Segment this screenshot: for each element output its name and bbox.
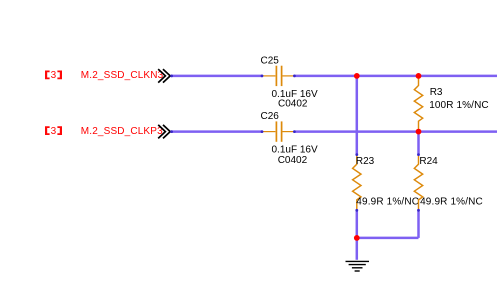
wire R3 bottom junction to R24 — [417, 132, 420, 155]
resistor R23 — [353, 155, 361, 211]
pin dot CLKP chevron — [170, 130, 173, 133]
svg-text:M.2_SSD_CLKN3: M.2_SSD_CLKN3 — [81, 70, 164, 81]
svg-text:C0402: C0402 — [278, 155, 308, 166]
resistor R3 — [414, 76, 422, 132]
svg-text:100R 1%/NC: 100R 1%/NC — [429, 100, 489, 111]
svg-text:0.1uF 16V: 0.1uF 16V — [272, 145, 318, 156]
wire R23 bottom to ground rail — [356, 210, 359, 238]
resistor R24 — [414, 155, 422, 211]
wire CLKN3 vertical drop to R23 — [356, 76, 359, 155]
svg-text:C0402: C0402 — [278, 98, 308, 109]
junction dot CLKP3 at R3 bottom / R24 — [416, 129, 422, 135]
node CLKN page-ref [3] label — [45, 70, 62, 81]
pin dot R23 pin1 — [355, 153, 358, 156]
wire CLKN3 from C25 to right edge — [294, 75, 497, 78]
wire CLKP3 from C26 to right edge — [294, 130, 497, 133]
junction dot CLKN3 at R3 top — [416, 73, 422, 79]
svg-text:49.9R 1%/NC: 49.9R 1%/NC — [420, 197, 483, 208]
junction dot ground rail — [354, 235, 360, 241]
pin dot R24 pin2 — [417, 209, 420, 212]
svg-text:3: 3 — [51, 126, 57, 137]
pin dot C25 pin2 — [293, 75, 296, 78]
svg-text:C25: C25 — [261, 55, 280, 66]
junction dot CLKN3 at R23 drop — [354, 73, 360, 79]
svg-text:R24: R24 — [419, 156, 438, 167]
pin dot CLKN chevron — [170, 75, 173, 78]
capacitor C26 — [262, 121, 295, 141]
svg-text:M.2_SSD_CLKP3: M.2_SSD_CLKP3 — [81, 126, 163, 137]
off-page connector chevron CLKP — [159, 125, 170, 137]
svg-text:C26: C26 — [261, 111, 280, 122]
wire CLKP3 from chevron to C26 — [171, 130, 262, 133]
wire R24 bottom to ground rail — [417, 210, 420, 238]
svg-text:R23: R23 — [356, 156, 375, 167]
pin dot C26 pin1 — [261, 130, 264, 133]
pin dot R24 pin1 — [417, 153, 420, 156]
ground symbol — [346, 261, 370, 271]
node CLKP page-ref [3] label — [45, 126, 62, 137]
wire CLKN3 from chevron to C25 — [171, 75, 262, 78]
svg-text:49.9R 1%/NC: 49.9R 1%/NC — [356, 197, 419, 208]
capacitor C25 — [262, 66, 295, 86]
svg-text:3: 3 — [51, 70, 57, 81]
pin dot C26 pin2 — [293, 130, 296, 133]
off-page connector chevron CLKN — [159, 70, 170, 82]
svg-text:R3: R3 — [430, 87, 443, 98]
wire ground rail horizontal — [357, 237, 419, 240]
pin dot R23 pin2 — [355, 209, 358, 212]
wire stub to ground symbol — [356, 238, 359, 260]
pin dot C25 pin1 — [261, 75, 264, 78]
